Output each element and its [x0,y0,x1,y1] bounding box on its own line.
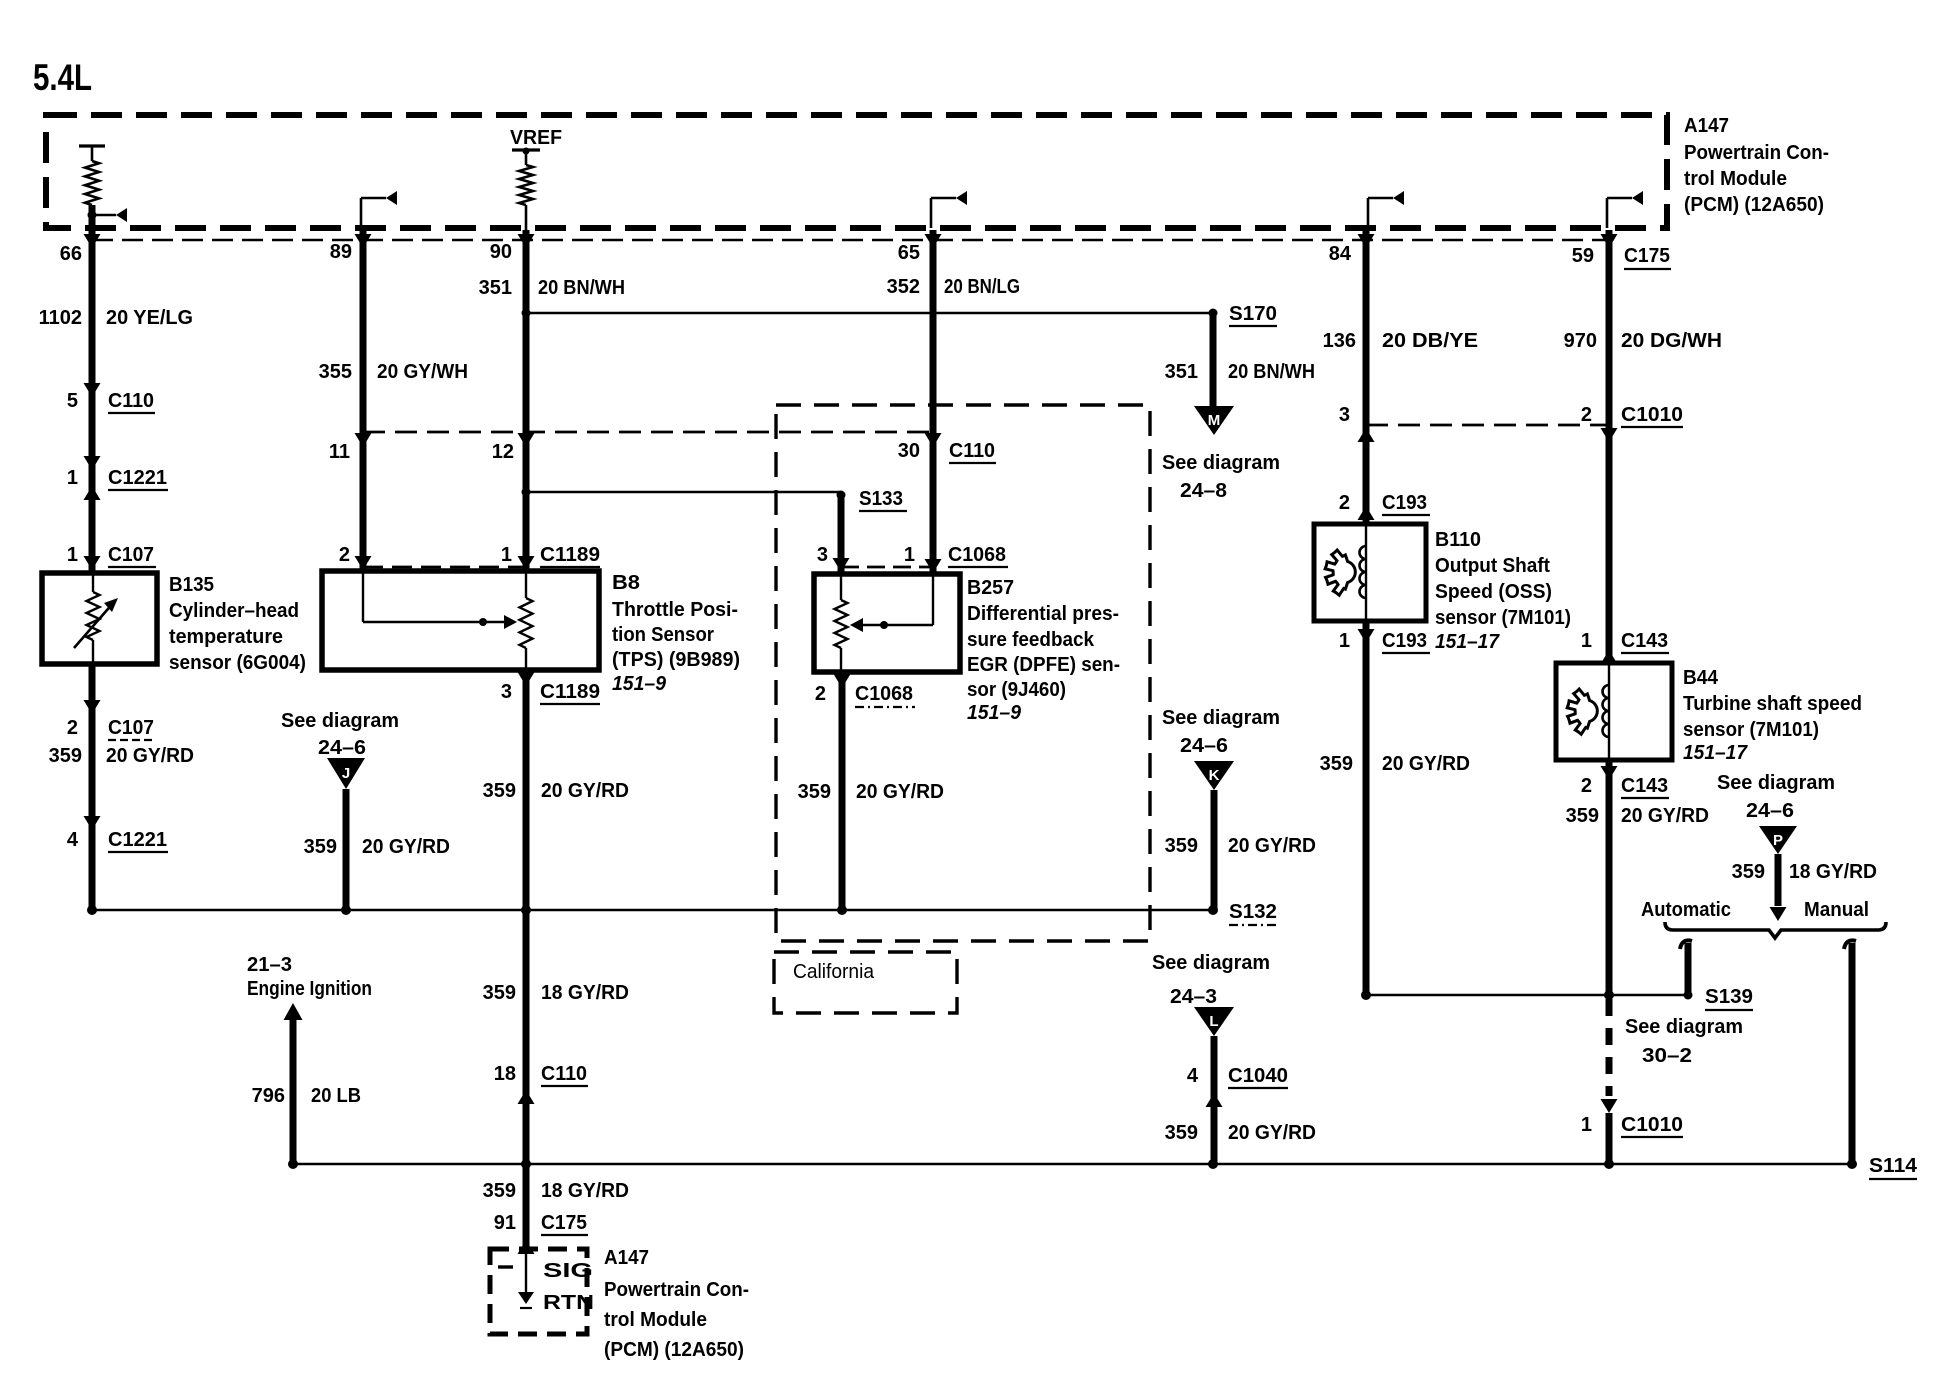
svg-text:151–9: 151–9 [967,702,1022,724]
svg-text:2: 2 [1339,492,1350,514]
W3 lower segment [523,910,530,1249]
arrowhead into harness at x=933 [925,234,942,248]
svg-text:VREF: VREF [510,127,562,149]
svg-text:Speed (OSS): Speed (OSS) [1435,581,1552,603]
automatic drop wire [1680,940,1692,949]
svg-text:L: L [1209,1013,1218,1030]
svg-text:359: 359 [483,982,516,1004]
svg-text:20 GY/RD: 20 GY/RD [1621,805,1709,827]
connector C110 pin 5 on W1 [84,383,101,397]
svg-text:3: 3 [1339,404,1350,426]
wire W2 pin 89 [360,230,367,571]
B110 coil [1360,546,1367,598]
svg-text:359: 359 [304,836,337,858]
B44 gear icon [1567,689,1597,734]
svg-text:1: 1 [501,544,512,566]
svg-text:C1010: C1010 [1621,1114,1683,1136]
W1 below B135 [89,664,96,910]
svg-text:151–9: 151–9 [612,673,667,695]
svg-text:3: 3 [501,681,512,703]
minus sign [498,1265,513,1268]
svg-text:K: K [1209,767,1220,784]
sensor B135 cylinder-head temperature box [42,573,157,664]
svg-text:C1221: C1221 [108,467,167,489]
svg-text:S133: S133 [859,488,903,510]
B110 gear icon [1325,550,1355,595]
svg-text:See diagram: See diagram [1162,707,1280,729]
svg-text:11: 11 [329,441,350,463]
svg-text:359: 359 [1566,805,1599,827]
wire W5 pin 84 [1363,230,1370,524]
variable-resistor arrow in B135 [74,602,114,648]
wire below B257 [839,672,846,910]
W6 dashed continuation see diagram 30-2 [1606,999,1613,1096]
svg-text:C193: C193 [1382,630,1427,652]
connector C175 dashed line under PCM [92,239,1612,242]
svg-text:EGR (DPFE) sen-: EGR (DPFE) sen- [967,654,1120,676]
svg-text:Turbine shaft speed: Turbine shaft speed [1683,693,1862,715]
svg-text:359: 359 [798,781,831,803]
svg-text:24–6: 24–6 [1180,735,1228,757]
sensor B257 DPFE box [814,574,960,672]
svg-text:C175: C175 [541,1212,587,1234]
sensor B44 turbine shaft speed box [1556,663,1672,760]
continuation flag at x=931 [930,198,933,228]
arrowhead into harness at x=92 [84,234,101,248]
svg-text:A147: A147 [1684,115,1729,137]
wire W4 pin 65 [930,230,937,574]
svg-text:S139: S139 [1705,986,1753,1008]
svg-text:See diagram: See diagram [1625,1016,1743,1038]
svg-text:RTN: RTN [543,1292,594,1314]
svg-text:30–2: 30–2 [1642,1045,1692,1067]
svg-text:66: 66 [60,243,82,265]
svg-text:trol Module: trol Module [604,1309,707,1331]
wire W3 pin 90 VREF [523,230,530,571]
connector C110 dashed line pins 11/12/30 [363,431,933,434]
svg-text:sor (9J460): sor (9J460) [967,679,1066,701]
svg-text:91: 91 [494,1212,516,1234]
PCM module A147 dashed box (bottom) [490,1249,587,1334]
bracket [1665,922,1886,938]
svg-text:B8: B8 [612,572,640,594]
svg-text:Automatic: Automatic [1641,899,1731,921]
svg-text:151–17: 151–17 [1435,631,1500,653]
svg-text:20 GY/RD: 20 GY/RD [856,781,944,803]
S133 drop wire [838,495,845,574]
node S133 line [526,491,841,493]
svg-text:351: 351 [1165,361,1198,383]
svg-text:C1189: C1189 [540,544,600,566]
svg-text:18 GY/RD: 18 GY/RD [1789,861,1877,883]
svg-text:B44: B44 [1683,667,1719,689]
svg-text:359: 359 [1732,861,1765,883]
svg-text:Cylinder–head: Cylinder–head [169,600,299,622]
svg-text:1102: 1102 [39,307,82,329]
svg-text:C1189: C1189 [540,681,600,703]
svg-text:C193: C193 [1382,492,1427,514]
svg-text:C107: C107 [108,544,154,566]
svg-text:21–3: 21–3 [247,954,292,976]
svg-text:20 LB: 20 LB [311,1085,361,1107]
svg-text:S132: S132 [1229,901,1277,923]
PCM module A147 dashed box (top) [46,115,1667,228]
svg-text:Manual: Manual [1804,899,1869,921]
svg-text:sure feedback: sure feedback [967,629,1095,651]
arrowhead into harness at x=1366 [1358,234,1375,248]
svg-text:359: 359 [49,745,82,767]
svg-text:A147: A147 [604,1247,649,1269]
connector C1221 pin 1 on W1 [84,456,101,470]
ground inside PCM [525,1251,527,1292]
svg-text:See diagram: See diagram [1717,772,1835,794]
svg-text:Powertrain Con-: Powertrain Con- [604,1279,749,1301]
svg-text:sensor (7M101): sensor (7M101) [1435,607,1571,629]
connector C1068 dashed line [841,566,933,569]
svg-text:Throttle Posi-: Throttle Posi- [612,599,738,621]
svg-text:See diagram: See diagram [1162,452,1280,474]
svg-text:20 GY/RD: 20 GY/RD [1228,835,1316,857]
svg-text:20 YE/LG: 20 YE/LG [106,307,193,329]
wire W6 pin 59 [1606,230,1613,663]
arrowhead into harness at x=363 [355,234,372,248]
svg-text:20 BN/WH: 20 BN/WH [1228,361,1315,383]
svg-text:B135: B135 [169,574,214,596]
svg-text:See diagram: See diagram [1152,952,1270,974]
svg-text:2: 2 [1581,775,1592,797]
connector C107 pin 1 on W1 [84,556,101,570]
svg-text:18: 18 [494,1063,516,1085]
svg-text:2: 2 [339,544,350,566]
svg-text:20 GY/RD: 20 GY/RD [1228,1122,1316,1144]
node S139 line [1366,994,1688,996]
svg-text:2: 2 [815,683,826,705]
svg-text:(TPS) (9B989): (TPS) (9B989) [612,649,740,671]
California label box [774,952,957,1013]
svg-text:1: 1 [904,544,915,566]
svg-text:C110: C110 [541,1063,587,1085]
svg-text:trol Module: trol Module [1684,168,1787,190]
resistor VREF inside PCM [512,148,540,151]
svg-text:4: 4 [67,829,79,851]
svg-text:136: 136 [1323,330,1356,352]
svg-text:359: 359 [483,1180,516,1202]
svg-text:B110: B110 [1435,529,1481,551]
svg-text:C143: C143 [1621,775,1668,797]
svg-text:20 BN/LG: 20 BN/LG [944,276,1020,298]
connector C193 pin 2 [1358,506,1375,520]
connector C143 pin 1 [1601,650,1618,664]
svg-text:J: J [342,765,350,782]
svg-text:tion Sensor: tion Sensor [612,624,714,646]
svg-text:sensor (7M101): sensor (7M101) [1683,719,1819,741]
svg-text:355: 355 [319,361,352,383]
svg-text:See diagram: See diagram [281,710,399,732]
arrowhead into harness at x=1609 [1601,234,1618,248]
svg-text:2: 2 [1581,404,1592,426]
svg-text:C175: C175 [1624,245,1670,267]
svg-text:20 GY/RD: 20 GY/RD [1382,753,1470,775]
svg-text:Engine Ignition: Engine Ignition [247,978,372,1000]
svg-text:359: 359 [1320,753,1353,775]
continuation flag at x=361 [360,198,363,228]
svg-text:18 GY/RD: 18 GY/RD [541,982,629,1004]
svg-text:20 DG/WH: 20 DG/WH [1621,330,1722,352]
svg-text:C110: C110 [949,440,995,462]
svg-text:1: 1 [67,544,78,566]
svg-text:California: California [793,961,875,983]
svg-text:20 GY/RD: 20 GY/RD [541,780,629,802]
sensor B110 output shaft speed box [1314,524,1426,621]
svg-text:4: 4 [1187,1065,1199,1087]
svg-text:C1040: C1040 [1228,1065,1288,1087]
connector C1221 pin 4 [84,816,101,830]
signal return bus wire [293,1163,1852,1165]
svg-text:20 GY/RD: 20 GY/RD [362,836,450,858]
B44 coil [1603,685,1610,737]
svg-text:C107: C107 [108,717,154,739]
connector C1010 dashed line (top) [1366,424,1609,427]
svg-text:C1068: C1068 [855,683,913,705]
svg-text:359: 359 [1165,1122,1198,1144]
svg-text:5: 5 [67,390,78,412]
svg-text:2: 2 [67,717,78,739]
svg-text:(PCM) (12A650): (PCM) (12A650) [1684,194,1824,216]
svg-text:18 GY/RD: 18 GY/RD [541,1180,629,1202]
svg-text:352: 352 [887,276,920,298]
manual drop wire [1844,940,1856,949]
svg-text:351: 351 [479,277,512,299]
svg-text:84: 84 [1329,243,1352,265]
svg-text:24–6: 24–6 [1746,800,1794,822]
svg-text:Differential pres-: Differential pres- [967,603,1119,625]
wire W1 pin 66 [89,205,96,573]
continuation flag at x=1368 [1367,198,1370,228]
arrowhead into harness at x=526 [518,234,535,248]
svg-text:C1010: C1010 [1621,404,1683,426]
svg-text:20 BN/WH: 20 BN/WH [538,277,625,299]
svg-text:970: 970 [1564,330,1597,352]
node S170 line [526,312,1213,314]
triangle M see diagram 24-8 [1194,406,1234,435]
svg-text:1: 1 [1581,1114,1592,1136]
svg-text:3: 3 [817,544,828,566]
connector C143 pin 2 [1601,766,1618,780]
svg-text:89: 89 [330,241,352,263]
connector C193 pin 1 [1358,629,1375,643]
California option dashed box [776,405,1150,941]
svg-text:59: 59 [1572,245,1594,267]
svg-text:C1068: C1068 [948,544,1006,566]
resistor (pull-up) on pin 66 inside PCM [79,144,105,147]
S170 drop wire to M [1210,315,1217,406]
svg-text:24–8: 24–8 [1180,480,1227,502]
svg-text:M: M [1208,412,1221,429]
svg-text:24–6: 24–6 [318,737,366,759]
W3 below B8 [523,670,530,910]
svg-text:1: 1 [1339,630,1350,652]
svg-text:65: 65 [898,242,920,264]
svg-text:90: 90 [490,241,512,263]
svg-text:Output Shaft: Output Shaft [1435,555,1550,577]
svg-text:5.4L: 5.4L [33,57,92,98]
svg-text:796: 796 [252,1085,285,1107]
svg-text:S114: S114 [1869,1155,1918,1177]
svg-text:C143: C143 [1621,630,1668,652]
svg-text:C1221: C1221 [108,829,167,851]
svg-text:359: 359 [483,780,516,802]
svg-text:20 GY/RD: 20 GY/RD [106,745,194,767]
svg-text:12: 12 [492,441,514,463]
svg-text:temperature: temperature [169,626,283,648]
svg-text:359: 359 [1165,835,1198,857]
svg-text:1: 1 [1581,630,1592,652]
sensor B8 throttle position box [322,571,599,670]
svg-text:P: P [1773,832,1783,849]
svg-text:SIG: SIG [543,1260,593,1282]
svg-text:sensor (6G004): sensor (6G004) [169,652,306,674]
svg-text:1: 1 [67,467,78,489]
continuation flag at x=1607 [1606,198,1609,228]
svg-text:B257: B257 [967,577,1014,599]
svg-text:(PCM) (12A650): (PCM) (12A650) [604,1339,744,1361]
svg-text:151–17: 151–17 [1683,742,1748,764]
svg-text:Powertrain Con-: Powertrain Con- [1684,142,1829,164]
connector C1189 dashed line [363,566,526,569]
svg-text:C110: C110 [108,390,154,412]
svg-text:24–3: 24–3 [1170,986,1217,1008]
svg-text:20 GY/WH: 20 GY/WH [377,361,468,383]
svg-text:S170: S170 [1229,303,1277,325]
svg-text:20 DB/YE: 20 DB/YE [1382,330,1478,352]
svg-text:30: 30 [898,440,920,462]
ground bus wire [92,909,1213,911]
